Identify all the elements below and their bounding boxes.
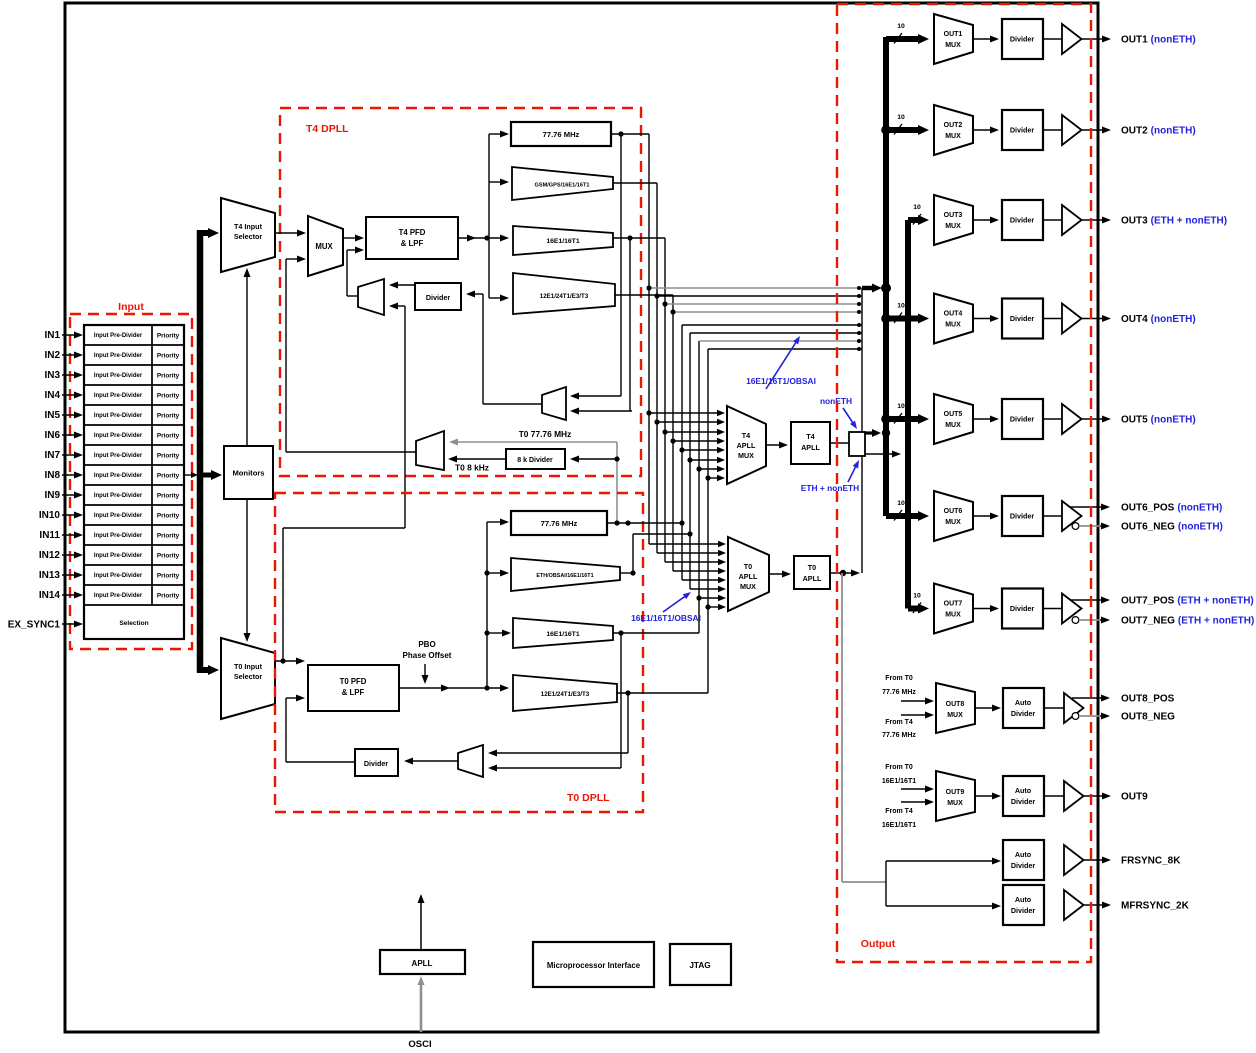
svg-text:OUT3(ETH + nonETH): OUT3(ETH + nonETH) [1121,216,1227,227]
svg-text:OUT7_NEG(ETH + nonETH): OUT7_NEG(ETH + nonETH) [1121,616,1254,627]
svg-text:IN6: IN6 [44,430,60,441]
svg-text:OUT8_POS: OUT8_POS [1121,694,1175,705]
svg-text:MFRSYNC_2K: MFRSYNC_2K [1121,901,1190,912]
svg-text:OUT7_POS(ETH + nonETH): OUT7_POS(ETH + nonETH) [1121,596,1254,607]
svg-text:16E1/16T1: 16E1/16T1 [546,631,579,638]
svg-text:OUT6_NEG(nonETH): OUT6_NEG(nonETH) [1121,522,1223,533]
svg-text:IN5: IN5 [44,410,60,421]
svg-text:16E1/16T1: 16E1/16T1 [882,822,916,829]
svg-text:IN4: IN4 [44,390,60,401]
svg-text:From T0: From T0 [885,764,913,771]
svg-text:IN11: IN11 [39,530,60,541]
svg-text:10: 10 [913,204,921,211]
svg-text:Input Pre-Divider: Input Pre-Divider [94,573,143,579]
svg-text:Divider: Divider [1010,126,1035,135]
svg-text:10: 10 [897,114,905,121]
svg-text:Divider: Divider [364,759,389,768]
svg-text:Input Pre-Divider: Input Pre-Divider [94,433,143,439]
svg-text:77.76 MHz: 77.76 MHz [882,732,916,739]
svg-text:Selection: Selection [119,620,148,627]
svg-text:T0 DPLL: T0 DPLL [567,792,610,804]
svg-text:OUT4: OUT4 [944,311,963,318]
svg-text:T0 8 kHz: T0 8 kHz [455,463,489,473]
svg-text:Divider: Divider [1010,35,1035,44]
svg-text:10: 10 [897,303,905,310]
svg-text:MUX: MUX [945,133,961,140]
svg-text:APLL: APLL [803,574,822,583]
svg-text:Input Pre-Divider: Input Pre-Divider [94,353,143,359]
svg-text:Input Pre-Divider: Input Pre-Divider [94,413,143,419]
svg-text:Priority: Priority [157,412,180,419]
svg-text:OUT5(nonETH): OUT5(nonETH) [1121,415,1196,426]
svg-text:MUX: MUX [947,800,963,807]
svg-text:Input Pre-Divider: Input Pre-Divider [94,553,143,559]
svg-text:IN9: IN9 [44,490,60,501]
svg-text:Priority: Priority [157,352,180,359]
svg-text:Priority: Priority [157,492,180,499]
svg-text:MUX: MUX [945,223,961,230]
svg-text:Input Pre-Divider: Input Pre-Divider [94,473,143,479]
svg-text:T0 Input: T0 Input [234,662,263,671]
svg-text:16E1/16T1: 16E1/16T1 [546,238,579,245]
svg-text:T0 77.76 MHz: T0 77.76 MHz [519,429,572,439]
svg-text:JTAG: JTAG [689,961,710,970]
svg-text:ETH/OBSAI/16E1/16T1: ETH/OBSAI/16E1/16T1 [536,573,593,579]
svg-text:8 k Divider: 8 k Divider [517,457,553,464]
svg-text:From T4: From T4 [885,719,913,726]
svg-text:Input Pre-Divider: Input Pre-Divider [94,533,143,539]
svg-text:APLL: APLL [412,959,433,968]
svg-text:IN2: IN2 [44,350,60,361]
svg-text:Auto: Auto [1015,698,1032,707]
svg-text:12E1/24T1/E3/T3: 12E1/24T1/E3/T3 [541,691,590,698]
svg-text:MUX: MUX [947,712,963,719]
svg-text:APLL: APLL [737,441,756,450]
svg-text:Input Pre-Divider: Input Pre-Divider [94,453,143,459]
svg-text:Input Pre-Divider: Input Pre-Divider [94,373,143,379]
svg-text:Input Pre-Divider: Input Pre-Divider [94,593,143,599]
svg-text:OUT9: OUT9 [946,789,965,796]
svg-text:10: 10 [897,500,905,507]
svg-text:T4: T4 [742,431,750,440]
svg-text:Divider: Divider [1011,906,1036,915]
svg-text:16E1/16T1/OBSAI: 16E1/16T1/OBSAI [746,376,816,386]
svg-text:Input Pre-Divider: Input Pre-Divider [94,513,143,519]
svg-text:T0: T0 [808,563,816,572]
svg-text:Priority: Priority [157,332,180,339]
svg-text:Divider: Divider [1010,415,1035,424]
svg-text:16E1/16T1/OBSAI: 16E1/16T1/OBSAI [631,613,701,623]
svg-text:EX_SYNC1: EX_SYNC1 [8,620,61,631]
svg-text:T4 DPLL: T4 DPLL [306,123,349,135]
svg-text:Priority: Priority [157,372,180,379]
svg-text:16E1/16T1: 16E1/16T1 [882,778,916,785]
svg-text:OUT7: OUT7 [944,601,963,608]
svg-text:FRSYNC_8K: FRSYNC_8K [1121,856,1181,867]
svg-text:OUT8_NEG: OUT8_NEG [1121,712,1175,723]
svg-text:T4 Input: T4 Input [234,222,263,231]
svg-text:12E1/24T1/E3/T3: 12E1/24T1/E3/T3 [540,293,589,300]
svg-text:OUT6_POS(nonETH): OUT6_POS(nonETH) [1121,503,1222,514]
svg-text:Input Pre-Divider: Input Pre-Divider [94,393,143,399]
svg-text:10: 10 [913,593,921,600]
svg-text:MUX: MUX [945,519,961,526]
svg-text:APLL: APLL [801,443,820,452]
svg-text:Divider: Divider [1011,797,1036,806]
svg-text:10: 10 [897,403,905,410]
svg-text:Priority: Priority [157,572,180,579]
svg-text:77.76 MHz: 77.76 MHz [543,130,580,139]
svg-text:Microprocessor Interface: Microprocessor Interface [547,961,641,970]
svg-text:Selector: Selector [234,672,263,681]
svg-text:Input Pre-Divider: Input Pre-Divider [94,333,143,339]
svg-text:OSCI: OSCI [408,1039,431,1050]
svg-text:From T4: From T4 [885,808,913,815]
svg-text:Output: Output [861,938,896,950]
svg-text:MUX: MUX [740,582,756,591]
svg-text:From T0: From T0 [885,675,913,682]
svg-text:OUT1: OUT1 [944,31,963,38]
svg-text:10: 10 [897,23,905,30]
svg-text:MUX: MUX [738,451,754,460]
svg-text:Auto: Auto [1015,895,1032,904]
svg-text:MUX: MUX [945,612,961,619]
svg-text:Divider: Divider [1010,512,1035,521]
svg-text:& LPF: & LPF [401,239,424,248]
svg-text:OUT2(nonETH): OUT2(nonETH) [1121,126,1196,137]
svg-text:Input: Input [118,301,144,313]
svg-text:Priority: Priority [157,532,180,539]
svg-text:Divider: Divider [1011,861,1036,870]
svg-text:T4 PFD: T4 PFD [399,228,426,237]
svg-text:Divider: Divider [1010,216,1035,225]
svg-text:GSM/GPS/16E1/16T1: GSM/GPS/16E1/16T1 [534,183,589,189]
svg-text:Phase Offset: Phase Offset [403,651,452,660]
svg-text:PBO: PBO [418,640,435,649]
svg-text:IN12: IN12 [39,550,61,561]
svg-text:OUT8: OUT8 [946,701,965,708]
svg-text:Priority: Priority [157,432,180,439]
svg-text:APLL: APLL [739,572,758,581]
svg-text:OUT2: OUT2 [944,122,963,129]
svg-text:IN13: IN13 [39,570,61,581]
svg-text:T4: T4 [806,432,814,441]
svg-text:& LPF: & LPF [342,688,365,697]
svg-text:Auto: Auto [1015,850,1032,859]
svg-text:ETH + nonETH: ETH + nonETH [801,483,859,493]
svg-text:T0: T0 [744,562,752,571]
svg-text:IN14: IN14 [39,590,61,601]
svg-text:Selector: Selector [234,232,263,241]
svg-text:T0 PFD: T0 PFD [340,677,367,686]
svg-text:IN1: IN1 [44,330,60,341]
svg-text:MUX: MUX [315,242,333,251]
svg-text:Auto: Auto [1015,786,1032,795]
svg-text:Divider: Divider [1010,604,1035,613]
svg-text:Priority: Priority [157,472,180,479]
svg-text:Input Pre-Divider: Input Pre-Divider [94,493,143,499]
svg-text:OUT6: OUT6 [944,508,963,515]
svg-text:77.76 MHz: 77.76 MHz [541,519,578,528]
svg-text:Priority: Priority [157,512,180,519]
svg-text:MUX: MUX [945,322,961,329]
svg-text:MUX: MUX [945,422,961,429]
svg-text:IN7: IN7 [44,450,60,461]
svg-text:OUT1(nonETH): OUT1(nonETH) [1121,35,1196,46]
svg-text:IN8: IN8 [44,470,60,481]
svg-text:OUT9: OUT9 [1121,792,1148,803]
svg-text:Priority: Priority [157,552,180,559]
svg-text:Divider: Divider [1010,314,1035,323]
svg-text:Priority: Priority [157,592,180,599]
svg-text:77.76 MHz: 77.76 MHz [882,689,916,696]
svg-text:OUT4(nonETH): OUT4(nonETH) [1121,314,1196,325]
svg-text:Priority: Priority [157,452,180,459]
svg-text:Priority: Priority [157,392,180,399]
svg-text:MUX: MUX [945,42,961,49]
svg-text:Monitors: Monitors [232,469,264,478]
svg-text:Divider: Divider [426,293,451,302]
svg-text:OUT5: OUT5 [944,411,963,418]
svg-text:Divider: Divider [1011,709,1036,718]
svg-text:OUT3: OUT3 [944,212,963,219]
svg-text:IN10: IN10 [39,510,61,521]
svg-text:IN3: IN3 [44,370,60,381]
